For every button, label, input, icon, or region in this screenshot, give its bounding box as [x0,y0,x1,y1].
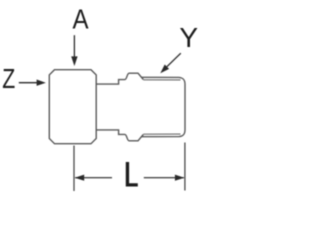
arrow A [71,35,77,66]
dim L arrowhead right [175,175,185,181]
dim L arrowhead left [75,175,85,181]
arrow Y [160,53,181,73]
thread root line top [143,79,180,81]
svg-text:Y: Y [179,22,198,53]
male adapter neck and ridge bottom profile [96,130,143,141]
dim L line right segment [144,177,184,179]
dim L extension line right [184,143,186,191]
thread crest outline with right end [141,77,185,136]
dim L extension line left [73,146,75,192]
thread root line bottom [143,133,180,135]
svg-text:A: A [73,3,90,35]
label L [126,162,138,187]
svg-text:Z: Z [2,63,15,95]
fitting body (socket block) [49,70,96,144]
dim L line left segment [75,177,112,179]
arrow Z [19,80,46,86]
male adapter neck and ridge top profile [96,73,143,84]
